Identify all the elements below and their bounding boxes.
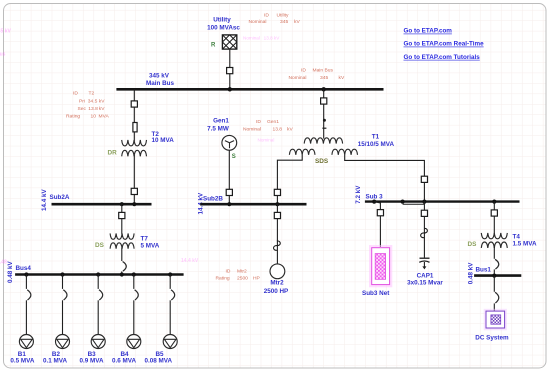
svg-text:Go to ETAP.com: Go to ETAP.com: [404, 28, 453, 35]
svg-text:3x0.15 Mvar: 3x0.15 Mvar: [407, 280, 443, 287]
svg-text:0.6 MVA: 0.6 MVA: [112, 358, 136, 365]
svg-text:DS: DS: [468, 241, 478, 248]
breaker CB T1 right secondary: [421, 176, 427, 182]
node junction on Main Bus at utility feed: [228, 87, 232, 91]
svg-text:0.48 kV: 0.48 kV: [7, 260, 14, 283]
svg-text:345: 345: [280, 19, 288, 25]
transformer T1 primary winding: [304, 138, 342, 144]
switch arc on T4 secondary: [495, 259, 499, 269]
Mtr2 annotation ID/Rating (red): [216, 268, 260, 281]
transformer T2 windings: [122, 140, 147, 156]
svg-text:Bus1: Bus1: [476, 267, 492, 274]
utility U1 symbol (crosshatched box): [222, 35, 236, 49]
Gen1 annotation ID/Nominal (red): [243, 119, 293, 133]
node junction Bus4 at B1: [24, 272, 28, 276]
svg-text:Main Bus: Main Bus: [313, 68, 334, 74]
svg-text:Sec: Sec: [78, 106, 87, 112]
node junction Sub2A at T7: [120, 202, 124, 206]
wire T2 to Sub2A: [133, 155, 135, 203]
wire main bus to T1 primary: [323, 89, 325, 138]
svg-text:Gen1: Gen1: [267, 119, 279, 125]
svg-text:Nominal: Nominal: [258, 138, 275, 143]
svg-text:Bus: Bus: [0, 51, 6, 57]
node junction Sub 3 under-bus tie left: [401, 200, 405, 204]
svg-text:ID: ID: [256, 119, 261, 125]
faded magenta fragments at left border: [0, 28, 199, 265]
svg-text:Nominal: Nominal: [243, 127, 261, 133]
breaker CB Sub3 Net: [377, 210, 383, 216]
breaker CB T2 secondary: [131, 188, 137, 194]
main bus annotation ID/Nominal (red): [289, 68, 345, 81]
svg-text:Mtr2: Mtr2: [237, 268, 247, 274]
load B2 branch: [56, 275, 70, 349]
svg-text:0.5 MVA: 0.5 MVA: [10, 358, 34, 365]
node junction Sub 3 at Sub3 Net: [372, 200, 376, 204]
load B1 branch: [19, 275, 33, 349]
svg-text:kV: kV: [99, 106, 105, 112]
svg-text:15/10/5 MVA: 15/10/5 MVA: [358, 141, 395, 148]
breaker CB T2 primary: [131, 101, 137, 107]
svg-text:34.5: 34.5: [88, 99, 98, 105]
transformer T1 secondary winding (left): [289, 149, 315, 155]
node junction Sub 3 at T4: [492, 200, 496, 204]
bus Bus4 label and kV: [7, 260, 32, 283]
svg-text:MVA: MVA: [99, 113, 110, 119]
node junction Bus4 at B4: [132, 272, 136, 276]
utility Utility label: [207, 17, 240, 32]
wire T4 to Bus1 with switch: [493, 247, 495, 276]
svg-text:Go to ETAP.com Tutorials: Go to ETAP.com Tutorials: [404, 54, 481, 61]
motor Mtr2 symbol: [270, 264, 285, 279]
svg-text:kV: kV: [294, 19, 300, 25]
svg-text:1.5 MVA: 1.5 MVA: [513, 240, 537, 247]
breaker CB Mtr2: [274, 212, 280, 218]
wire Sub 3 to Sub3 Net: [374, 202, 380, 247]
node junction Sub2B at Gen1: [227, 202, 231, 206]
svg-text:Sub3 Net: Sub3 Net: [362, 290, 390, 297]
svg-text:ID: ID: [301, 68, 306, 74]
wire Sub2A to T7: [121, 204, 123, 234]
svg-text:2500: 2500: [237, 276, 248, 282]
svg-text:kV: kV: [287, 127, 293, 133]
svg-text:kV: kV: [339, 75, 345, 81]
svg-text:DC System: DC System: [475, 335, 509, 342]
breaker CB Gen1: [226, 189, 232, 195]
node junction Bus4 at B2: [60, 272, 64, 276]
label T2 10 MVA: [152, 131, 175, 144]
svg-text:Utility: Utility: [213, 17, 231, 24]
breaker CB-utility (open square): [227, 68, 233, 74]
bus Bus4 (0.48 kV): [15, 273, 184, 276]
label Mtr2 2500 HP: [264, 280, 289, 296]
svg-text:T1: T1: [372, 133, 380, 140]
svg-text:Sub2A: Sub2A: [50, 194, 70, 201]
breaker CB CAP1: [421, 210, 427, 216]
svg-text:T2: T2: [89, 91, 95, 97]
svg-text:DR: DR: [108, 150, 118, 157]
wire Sub2B to Mtr2: [276, 204, 278, 264]
node junction Sub2A at T2: [132, 202, 136, 206]
svg-text:Pri: Pri: [79, 99, 85, 105]
label B4 0.6 MVA: [112, 351, 136, 365]
svg-text:10 MVA: 10 MVA: [152, 137, 175, 144]
label B3 0.9 MVA: [80, 351, 104, 365]
load B3 branch: [91, 275, 105, 349]
bus Sub 3 (7.2 kV): [365, 200, 520, 202]
svg-text:T7: T7: [141, 236, 149, 243]
transformer T4 windings: [481, 233, 507, 248]
svg-text:0.08 MVA: 0.08 MVA: [145, 358, 173, 365]
svg-text:5 MVA: 5 MVA: [141, 243, 160, 250]
generator Gen1 symbol: [222, 135, 237, 150]
svg-text:CAP1: CAP1: [417, 272, 434, 279]
svg-text:2500 HP: 2500 HP: [264, 288, 289, 295]
svg-text:Go to ETAP.com Real-Time: Go to ETAP.com Real-Time: [404, 41, 485, 48]
svg-text:Sub2B: Sub2B: [203, 195, 223, 202]
fuse/link element on T1 feeder: [322, 119, 326, 129]
svg-text:13.8: 13.8: [273, 127, 283, 133]
svg-text:14.4 kV: 14.4 kV: [41, 188, 48, 211]
label CAP1 3x0.15 Mvar: [407, 272, 443, 286]
svg-text:345 kV: 345 kV: [0, 28, 12, 34]
label B5 0.08 MVA: [145, 351, 173, 365]
wire T1 right secondary to Sub 3: [345, 155, 425, 202]
wire Sub 3 to CAP1: [423, 202, 425, 258]
load B4 branch: [127, 275, 141, 349]
svg-text:Nominal: Nominal: [249, 19, 267, 25]
bus Sub 3 label and kV: [355, 185, 383, 204]
label T7 5 MVA: [141, 236, 160, 250]
svg-text:ID: ID: [226, 268, 231, 274]
wire T1 left secondary to Sub2B: [277, 155, 302, 204]
transformer T1 secondary winding (right): [332, 149, 358, 155]
capacitor CAP1 symbol: [419, 258, 429, 269]
node junction Sub2B at T1/Mtr2: [275, 202, 279, 206]
svg-text:Gen1: Gen1: [213, 118, 229, 125]
wire under-bus tie: [403, 203, 425, 205]
bus Sub2A (14.4 kV): [52, 203, 152, 206]
node junction Bus4 at B5: [168, 272, 172, 276]
svg-text:Rating: Rating: [66, 113, 80, 119]
bus Sub2B (14.4 kV): [200, 203, 306, 206]
fuse F-CAP1 (S-curl): [421, 228, 428, 237]
svg-text:100 MVAsc: 100 MVAsc: [207, 24, 240, 31]
svg-text:kV: kV: [99, 99, 105, 105]
bus Bus1 label and kV: [468, 262, 492, 285]
svg-text:R: R: [211, 43, 216, 49]
svg-text:DS: DS: [95, 242, 105, 249]
svg-text:0.1 MVA: 0.1 MVA: [43, 358, 67, 365]
svg-text:Rating: Rating: [216, 276, 230, 282]
switch arc on T7 feeder: [123, 262, 127, 272]
utility annotation ID/Nominal (red): [249, 12, 301, 25]
label T4 1.5 MVA: [513, 234, 537, 248]
wire Gen1 to Sub2B: [228, 150, 230, 203]
fuse F-Mtr2 (S-curl): [274, 241, 281, 250]
svg-text:Main Bus: Main Bus: [146, 80, 174, 87]
wire Bus1 to DC System with switch: [493, 276, 495, 312]
svg-text:ID: ID: [73, 91, 78, 97]
label B2 0.1 MVA: [43, 351, 67, 365]
svg-text:0.9 MVA: 0.9 MVA: [80, 358, 104, 365]
svg-text:Nominal: Nominal: [289, 75, 307, 81]
T2 annotation ID/Pri/Sec/Rating (red): [66, 91, 109, 120]
label T1 15/10/5 MVA: [358, 133, 395, 148]
node junction on Main Bus at T1 feed: [322, 87, 326, 91]
svg-text:S: S: [232, 154, 236, 160]
svg-text:13.8: 13.8: [88, 106, 98, 112]
bus Sub2A label and kV: [41, 188, 70, 211]
transformer T7 windings: [110, 233, 134, 248]
breaker CB T1 primary: [321, 98, 327, 104]
svg-text:345 kV: 345 kV: [149, 72, 170, 79]
switch arc on DC feeder: [495, 292, 499, 303]
svg-text:10: 10: [91, 113, 97, 119]
wire utility to main bus: [229, 49, 231, 88]
bus Bus1 (0.48 kV): [474, 274, 521, 277]
breaker CB T4: [491, 210, 497, 216]
fuse F-T2 (rectangle): [133, 123, 137, 132]
wire Sub 3 to T4: [493, 202, 495, 234]
svg-text:HP: HP: [253, 276, 260, 282]
svg-text:7.2 kV: 7.2 kV: [355, 185, 362, 204]
node junction Bus1: [492, 274, 496, 278]
network Sub3 Net symbol (magenta box): [370, 246, 391, 286]
svg-text:Sub 3: Sub 3: [366, 193, 384, 200]
svg-text:7.5 MW: 7.5 MW: [207, 125, 229, 132]
svg-text:Utility: Utility: [277, 12, 290, 18]
svg-text:Nominal 13.8 kV: Nominal 13.8 kV: [243, 35, 280, 40]
svg-text:0.48 kV: 0.48 kV: [468, 262, 475, 285]
svg-text:345: 345: [320, 75, 328, 81]
main bus label 345 kV Main Bus: [146, 72, 174, 87]
svg-text:Bus4: Bus4: [16, 265, 32, 272]
bus Main Bus (345 kV): [116, 88, 383, 91]
breaker CB T7 primary: [119, 212, 125, 218]
svg-text:14.4 kV: 14.4 kV: [181, 258, 199, 264]
converter DC System symbol (magenta box): [485, 310, 506, 329]
node junction Sub 3 at T1/CAP1: [422, 200, 426, 204]
load B5 branch: [163, 275, 177, 349]
bus Sub2B label and kV: [198, 192, 224, 215]
node junction Bus4 at T7: [120, 272, 124, 276]
node junction Bus4 at B3: [96, 272, 100, 276]
svg-text:Mtr2: Mtr2: [270, 280, 284, 287]
breaker CB T1 left secondary: [274, 189, 280, 195]
wire main bus to T2: [133, 89, 135, 141]
wire T7 to Bus4 with switch: [121, 248, 123, 275]
svg-text:ID: ID: [264, 12, 269, 18]
Gen1 label: [207, 118, 229, 133]
label B1 0.5 MVA: [10, 351, 34, 365]
svg-text:SDS: SDS: [315, 158, 329, 165]
